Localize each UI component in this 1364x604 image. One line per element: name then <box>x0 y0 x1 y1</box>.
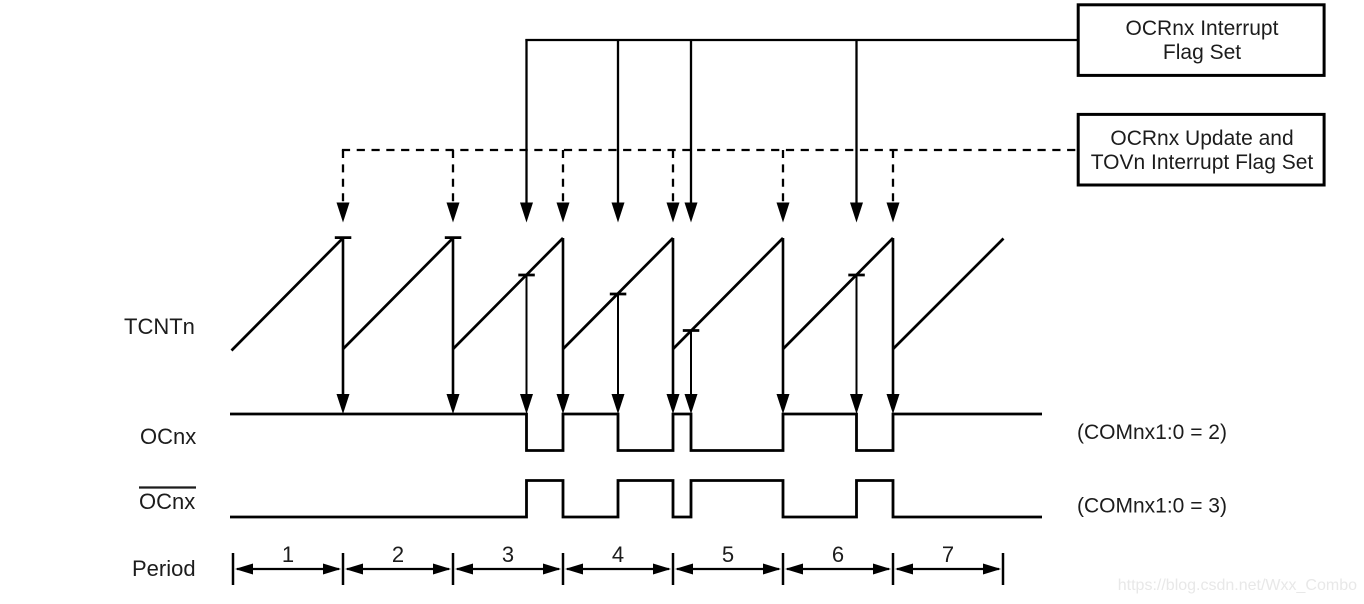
compare match arrow period 4 <box>612 295 625 414</box>
period tick 1 <box>342 553 345 585</box>
dashed arrow at TOP period 1 <box>337 150 350 223</box>
svg-text:2: 2 <box>392 542 404 567</box>
solid arrow at compare match period 5 <box>685 39 698 223</box>
OCRnx compare level dash period 5 <box>683 329 700 332</box>
svg-text:OCRnx Interrupt: OCRnx Interrupt <box>1126 17 1279 40</box>
compare match arrow period 6 <box>850 276 863 414</box>
period tick 0 <box>232 553 235 585</box>
svg-text:TCNTn: TCNTn <box>124 314 195 339</box>
TCNTn drop arrow at TOP 5 <box>777 238 790 414</box>
period tick 6 <box>892 553 895 585</box>
svg-text:Period: Period <box>132 556 196 581</box>
TCNTn drop arrow at TOP 6 <box>887 238 900 414</box>
svg-text:TOVn Interrupt Flag Set: TOVn Interrupt Flag Set <box>1091 151 1314 174</box>
period tick 3 <box>562 553 565 585</box>
wire solid horizontal from box 1 <box>525 39 1078 41</box>
svg-text:1: 1 <box>282 542 294 567</box>
solid arrow at compare match period 4 <box>612 39 625 223</box>
period tick 2 <box>452 553 455 585</box>
box OCRnx Interrupt Flag Set <box>1078 5 1324 76</box>
period span arrow 2 <box>345 564 451 575</box>
OCRnx compare level dash period 3 <box>518 274 535 277</box>
period span arrow 7 <box>895 564 1001 575</box>
svg-text:3: 3 <box>502 542 514 567</box>
svg-text:5: 5 <box>722 542 734 567</box>
solid arrow at compare match period 6 <box>850 39 863 223</box>
dashed arrow at TOP period 2 <box>447 150 460 223</box>
svg-text:OCnx: OCnx <box>139 489 195 514</box>
TCNTn sawtooth ramps <box>232 238 1004 351</box>
svg-text:4: 4 <box>612 542 624 567</box>
OCRnx compare level dash period 2 <box>445 236 462 239</box>
TCNTn drop arrow at TOP 3 <box>557 238 570 414</box>
OCnx waveform (COMnx1:0 = 2) <box>230 414 1042 451</box>
solid arrow at compare match period 3 <box>520 39 533 223</box>
svg-text:7: 7 <box>942 542 954 567</box>
OCRnx compare level dash period 6 <box>848 274 865 277</box>
OCRnx compare level dash period 4 <box>610 293 627 296</box>
OCRnx compare level dash period 1 <box>335 236 352 239</box>
period span arrow 5 <box>675 564 781 575</box>
period tick 7 <box>1002 553 1005 585</box>
wire dashed horizontal from box 2 <box>342 149 1078 151</box>
dashed arrow at TOP period 5 <box>777 150 790 223</box>
TCNTn drop arrow at TOP 2 <box>447 238 460 414</box>
period span arrow 3 <box>455 564 561 575</box>
svg-text:OCRnx Update and: OCRnx Update and <box>1110 127 1293 150</box>
dashed arrow at TOP period 4 <box>667 150 680 223</box>
period span arrow 6 <box>785 564 891 575</box>
svg-text:https://blog.csdn.net/Wxx_Comb: https://blog.csdn.net/Wxx_Combo <box>1118 577 1357 594</box>
box OCRnx Update and TOVn Interrupt Flag Set <box>1078 114 1324 185</box>
dashed arrow at TOP period 6 <box>887 150 900 223</box>
compare match arrow period 3 <box>520 276 533 414</box>
svg-text:OCnx: OCnx <box>140 424 196 449</box>
period tick 5 <box>782 553 785 585</box>
period span arrow 4 <box>565 564 671 575</box>
svg-text:Flag Set: Flag Set <box>1163 41 1241 64</box>
period tick 4 <box>672 553 675 585</box>
TCNTn drop arrow at TOP 4 <box>667 238 680 414</box>
compare match arrow period 5 <box>685 331 698 414</box>
OCnx inverted waveform (COMnx1:0 = 3) <box>230 481 1042 518</box>
svg-text:(COMnx1:0 = 3): (COMnx1:0 = 3) <box>1077 495 1227 518</box>
TCNTn drop arrow at TOP 1 <box>337 238 350 414</box>
svg-text:(COMnx1:0 = 2): (COMnx1:0 = 2) <box>1077 421 1227 444</box>
svg-text:6: 6 <box>832 542 844 567</box>
dashed arrow at TOP period 3 <box>557 150 570 223</box>
period span arrow 1 <box>235 564 341 575</box>
label OCnx inverted with overline <box>139 488 196 515</box>
